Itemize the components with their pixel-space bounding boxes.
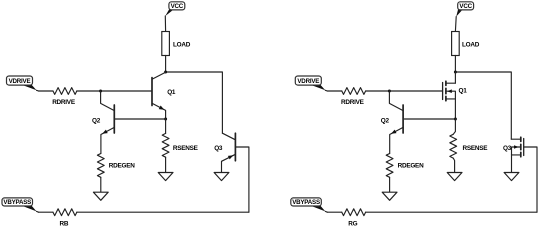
svg-text:VCC: VCC (459, 3, 472, 10)
svg-text:RDRIVE: RDRIVE (341, 99, 365, 106)
svg-text:RB: RB (60, 220, 69, 226)
svg-text:VDRIVE: VDRIVE (297, 78, 319, 85)
svg-text:Q1: Q1 (167, 89, 176, 96)
svg-text:LOAD: LOAD (462, 42, 480, 49)
svg-text:RSENSE: RSENSE (463, 145, 489, 152)
svg-text:LOAD: LOAD (173, 42, 191, 49)
svg-text:Q3: Q3 (503, 145, 512, 152)
svg-text:VDRIVE: VDRIVE (9, 78, 31, 85)
svg-text:VCC: VCC (171, 3, 184, 10)
svg-text:RDEGEN: RDEGEN (398, 163, 424, 170)
svg-text:VBYPASS: VBYPASS (292, 199, 320, 206)
svg-text:RSENSE: RSENSE (173, 145, 199, 152)
svg-text:RDEGEN: RDEGEN (109, 163, 135, 170)
svg-text:RG: RG (348, 220, 357, 226)
svg-text:Q3: Q3 (214, 145, 223, 152)
svg-text:Q1: Q1 (459, 87, 468, 94)
svg-text:Q2: Q2 (92, 117, 101, 124)
svg-text:Q2: Q2 (381, 117, 390, 124)
svg-text:VBYPASS: VBYPASS (3, 199, 31, 206)
svg-text:RDRIVE: RDRIVE (52, 99, 76, 106)
